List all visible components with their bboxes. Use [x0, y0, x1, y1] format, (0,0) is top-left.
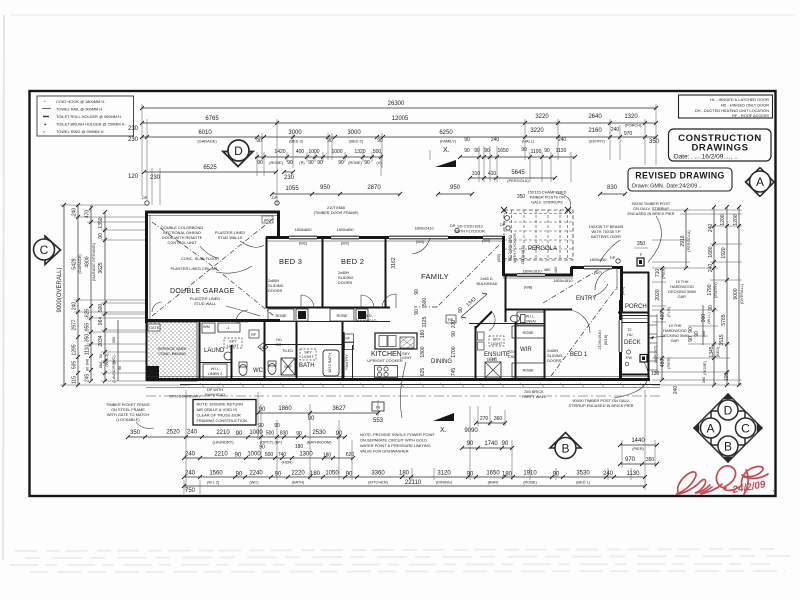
- svg-text:1350: 1350: [98, 217, 104, 228]
- svg-text:(BED 2): (BED 2): [349, 139, 364, 144]
- svg-text:LINEN: LINEN: [524, 319, 536, 324]
- svg-text:1800x850: 1800x850: [589, 257, 607, 262]
- svg-text:DP: DP: [500, 222, 506, 227]
- robes row under bedrooms: [266, 321, 390, 323]
- svg-text:180: 180: [399, 471, 410, 477]
- garage bottom wall: [146, 319, 280, 322]
- window marks top wall: [289, 237, 502, 239]
- svg-text:90: 90: [464, 137, 470, 143]
- svg-text:ROBE: ROBE: [522, 330, 533, 335]
- tick marks top: [140, 106, 658, 196]
- svg-text:1800: 1800: [420, 346, 426, 357]
- svg-text:115: 115: [72, 376, 78, 384]
- svg-text:C: C: [741, 422, 750, 436]
- elevation marker cluster ABCD: [694, 394, 762, 462]
- svg-text:400: 400: [296, 149, 305, 155]
- svg-text:DINING: DINING: [431, 359, 452, 365]
- svg-text:90: 90: [464, 148, 470, 154]
- svg-text:2020: 2020: [655, 289, 661, 300]
- legend box top-left: [37, 96, 134, 136]
- svg-text:6765: 6765: [205, 116, 219, 122]
- svg-text:1910: 1910: [523, 471, 537, 477]
- svg-text:GAP.: GAP.: [671, 338, 680, 343]
- boxed note ensure return air grille: [193, 400, 256, 426]
- kitchen: [375, 333, 417, 349]
- svg-text:(LOCKABLE): (LOCKABLE): [116, 417, 140, 422]
- svg-text:(GARAGE): (GARAGE): [77, 254, 82, 274]
- svg-text:(W.L 2): (W.L 2): [207, 480, 220, 485]
- svg-text:(W2): (W2): [341, 241, 350, 246]
- svg-text:COAT HOOK @ 1800MM H.: COAT HOOK @ 1800MM H.: [56, 99, 105, 104]
- svg-text:DRAWINGS: DRAWINGS: [691, 143, 748, 154]
- svg-text:PERGOLA: PERGOLA: [528, 246, 557, 252]
- svg-text:90: 90: [236, 472, 243, 478]
- svg-text:800: 800: [264, 218, 271, 223]
- section marker B bottom: [550, 433, 581, 459]
- svg-text:(PERGOLA): (PERGOLA): [686, 230, 691, 252]
- svg-text:RF: RF: [346, 337, 350, 341]
- svg-text:240: 240: [708, 224, 714, 233]
- bed1 robe: [512, 363, 544, 377]
- svg-text:DOORS: DOORS: [268, 288, 283, 293]
- svg-text:LIGHT: LIGHT: [400, 355, 412, 360]
- svg-text:3625: 3625: [98, 262, 104, 273]
- svg-text:(BATH): (BATH): [292, 480, 305, 485]
- svg-text:2520: 2520: [166, 430, 180, 436]
- svg-text:ROBE: ROBE: [336, 313, 347, 318]
- svg-text:ENTRY: ENTRY: [576, 296, 596, 302]
- svg-text:TILED: TILED: [282, 348, 293, 353]
- svg-text:1680: 1680: [708, 246, 714, 257]
- revised drawing box: [628, 168, 732, 191]
- svg-text:(WC): (WC): [249, 480, 259, 485]
- svg-text:ON SEPARATE CIRCUIT WITH GOLD: ON SEPARATE CIRCUIT WITH GOLD: [360, 438, 427, 443]
- dining ensuite wall: [475, 326, 477, 380]
- svg-text:2220: 2220: [291, 471, 305, 477]
- leader lines annotations: [200, 246, 218, 258]
- svg-text:240: 240: [72, 302, 78, 311]
- svg-text:(BATHROOM): (BATHROOM): [307, 440, 332, 445]
- svg-text:955: 955: [85, 323, 91, 332]
- svg-text:2870: 2870: [367, 185, 381, 191]
- svg-text:(PERGOLA): (PERGOLA): [507, 178, 529, 183]
- svg-text:1130: 1130: [627, 471, 641, 477]
- svg-text:90: 90: [275, 472, 282, 478]
- svg-text:STUD WALLS: STUD WALLS: [218, 235, 243, 240]
- svg-text:90: 90: [502, 441, 509, 447]
- bed1 ceiling diagonal: [551, 287, 617, 376]
- svg-text:(GARAGE OPENING): (GARAGE OPENING): [91, 242, 96, 281]
- svg-text:1055: 1055: [285, 186, 299, 192]
- svg-text:2977: 2977: [72, 319, 78, 330]
- wm and trough: [202, 323, 215, 333]
- svg-text:NOTE- PROVIDE SINGLE POWER POI: NOTE- PROVIDE SINGLE POWER POINT: [360, 432, 435, 437]
- svg-text:-1: -1: [226, 325, 229, 330]
- svg-text:350: 350: [517, 194, 526, 200]
- svg-text:1800x1810: 1800x1810: [553, 278, 573, 283]
- svg-text:LIGHT: LIGHT: [227, 343, 239, 348]
- svg-text:(TIMBER DOOR FRAME): (TIMBER DOOR FRAME): [314, 210, 359, 215]
- svg-text:TOWEL RAIL @ 900MM H.: TOWEL RAIL @ 900MM H.: [56, 107, 103, 112]
- svg-text:1200: 1200: [720, 214, 726, 225]
- svg-text:DP: DP: [142, 195, 148, 200]
- svg-text:LAUND: LAUND: [204, 348, 225, 354]
- svg-text:RF: RF: [251, 332, 257, 337]
- svg-text:350: 350: [130, 430, 141, 436]
- svg-text:240: 240: [558, 137, 567, 143]
- svg-text:NOTE: ENSURE RETURN: NOTE: ENSURE RETURN: [197, 402, 244, 407]
- svg-text:360: 360: [494, 416, 503, 422]
- placeholder groups: [128, 101, 675, 239]
- svg-text:PORCH: PORCH: [625, 304, 647, 310]
- svg-text:1295: 1295: [72, 344, 78, 355]
- svg-text:B: B: [561, 442, 569, 456]
- svg-text:350: 350: [85, 334, 91, 343]
- garage door swing arcs: [152, 302, 162, 312]
- svg-text:LIGHT: LIGHT: [491, 341, 503, 346]
- svg-text:1860: 1860: [278, 406, 292, 412]
- svg-text:4800: 4800: [85, 256, 91, 267]
- svg-text:90: 90: [553, 472, 560, 478]
- svg-text:RAINHEAD: RAINHEAD: [205, 392, 225, 397]
- svg-text:180: 180: [420, 330, 426, 339]
- service yard left fence: [146, 322, 148, 381]
- exterior wall garage top: [145, 211, 280, 214]
- svg-text:WATER POINT & PRESSURE LIMITIN: WATER POINT & PRESSURE LIMITING: [360, 443, 431, 448]
- svg-text:90: 90: [235, 453, 242, 459]
- svg-text:X.: X.: [440, 427, 447, 434]
- svg-text:950: 950: [320, 185, 331, 191]
- service yard hatched paving: [147, 322, 197, 381]
- svg-text:1800x850: 1800x850: [294, 227, 312, 232]
- wil linen 2: [203, 364, 227, 378]
- abbreviation legend top-right: [679, 95, 773, 118]
- svg-text:90: 90: [308, 416, 315, 422]
- svg-text:3000: 3000: [288, 130, 302, 136]
- svg-text:D: D: [724, 404, 733, 418]
- svg-text:BATTENS OVER: BATTENS OVER: [591, 234, 621, 239]
- svg-text:26300: 26300: [388, 101, 405, 107]
- svg-text:(BED 1): (BED 1): [576, 480, 591, 485]
- svg-text:90: 90: [544, 148, 550, 154]
- svg-text:1200: 1200: [733, 214, 739, 225]
- svg-text:2034: 2034: [98, 335, 104, 346]
- svg-text:3530: 3530: [576, 471, 590, 477]
- svg-text:(OVERALL): (OVERALL): [739, 283, 744, 304]
- svg-text:868: 868: [98, 362, 103, 369]
- svg-text:FRAMING CONSTRUCTION.: FRAMING CONSTRUCTION.: [197, 418, 248, 423]
- svg-text:90: 90: [257, 160, 263, 166]
- svg-text:A: A: [756, 175, 764, 189]
- svg-text:DECK: DECK: [624, 340, 641, 346]
- svg-text:120: 120: [128, 174, 139, 180]
- svg-text:STIRRUP ENCASED IN BRICK PIER: STIRRUP ENCASED IN BRICK PIER: [568, 403, 633, 408]
- entry porch deck outer walls: [620, 266, 623, 313]
- svg-text:(ROBE): (ROBE): [269, 160, 283, 165]
- svg-text:LIGHT: LIGHT: [302, 354, 314, 359]
- svg-text:DOORS: DOORS: [547, 358, 562, 363]
- svg-text:970: 970: [624, 131, 633, 137]
- svg-text:500: 500: [266, 431, 275, 437]
- svg-text:90: 90: [458, 307, 464, 313]
- svg-text:ROBE: ROBE: [275, 313, 286, 318]
- svg-text:240: 240: [72, 208, 78, 217]
- svg-text:90: 90: [414, 289, 420, 295]
- svg-text:(BED): (BED): [715, 346, 720, 357]
- misc small boxed labels: [249, 330, 259, 338]
- svg-text:90: 90: [259, 407, 266, 413]
- svg-text:625: 625: [85, 309, 91, 318]
- leader curve to timber post note: [648, 216, 661, 262]
- party wall band: [180, 384, 660, 386]
- extension lines top: [142, 104, 656, 205]
- svg-text:1420: 1420: [274, 149, 285, 155]
- svg-text:240: 240: [187, 430, 198, 436]
- svg-text:(W4): (W4): [482, 238, 491, 243]
- svg-text:1100: 1100: [531, 149, 542, 155]
- svg-text:(R): (R): [299, 160, 305, 165]
- svg-text:(W1): (W1): [299, 241, 308, 246]
- svg-text:1650: 1650: [497, 148, 508, 154]
- svg-text:BULKHEAD: BULKHEAD: [356, 318, 377, 323]
- svg-text:1440: 1440: [631, 438, 645, 444]
- svg-text:350: 350: [111, 336, 116, 343]
- note dishwasher power point: [360, 432, 435, 454]
- bottom dim row 4: [184, 476, 645, 478]
- svg-text:230: 230: [128, 137, 139, 143]
- svg-text:1650: 1650: [486, 471, 500, 477]
- svg-text:SITE BOUNDARY: SITE BOUNDARY: [169, 394, 201, 399]
- bath fixtures: [323, 350, 339, 376]
- bottom dim row 1: [258, 412, 378, 414]
- signature red: [676, 466, 768, 494]
- svg-text:HL - HINGED & LATCHED DOOR: HL - HINGED & LATCHED DOOR: [710, 97, 769, 102]
- section marker D top: [223, 140, 253, 167]
- svg-text:2530: 2530: [312, 430, 326, 436]
- svg-text:TOILET ROLL HOLDER @ 900MM H.: TOILET ROLL HOLDER @ 900MM H.: [56, 114, 122, 119]
- svg-text:D: D: [234, 144, 243, 158]
- svg-text:3220: 3220: [535, 114, 549, 120]
- left tick marks: [62, 203, 107, 387]
- dimension row 26300: [142, 107, 656, 109]
- svg-text:180: 180: [310, 471, 321, 477]
- door arcs: [301, 295, 314, 308]
- svg-text:1300: 1300: [299, 452, 313, 458]
- wall step garage to bedrooms: [277, 211, 280, 238]
- svg-text:×: ×: [43, 129, 45, 134]
- decking note arrow: [649, 336, 665, 338]
- svg-text:240: 240: [491, 137, 500, 143]
- svg-text:625: 625: [420, 368, 426, 377]
- bottom dim row 3: [184, 457, 353, 459]
- svg-text:9090: 9090: [464, 428, 478, 434]
- svg-text:KITCHEN: KITCHEN: [371, 351, 402, 358]
- svg-text:CONTROL UNIT: CONTROL UNIT: [167, 240, 197, 245]
- svg-text:1130: 1130: [556, 148, 567, 154]
- svg-text:5765: 5765: [721, 314, 727, 325]
- svg-text:1320: 1320: [354, 149, 365, 155]
- svg-text:1110: 1110: [85, 345, 91, 356]
- skylight laundry: [224, 338, 242, 348]
- svg-text:GAP.: GAP.: [678, 294, 687, 299]
- svg-text:WITH FLYDOOR: WITH FLYDOOR: [455, 229, 485, 234]
- wc fixtures: [239, 365, 247, 376]
- ensuite wir bed1: [515, 322, 517, 380]
- svg-text:90: 90: [451, 331, 457, 337]
- svg-text:3627: 3627: [332, 406, 346, 412]
- svg-text:90: 90: [521, 147, 527, 153]
- wil linen entry: [517, 312, 544, 325]
- svg-text:(ROBE): (ROBE): [523, 480, 537, 485]
- svg-text:X.: X.: [443, 147, 450, 154]
- svg-text:GATE: GATE: [149, 325, 160, 330]
- svg-text:750: 750: [185, 488, 196, 494]
- svg-text:BULKHEAD: BULKHEAD: [477, 281, 498, 286]
- svg-text:1740: 1740: [484, 441, 498, 447]
- svg-text:(FAMILY): (FAMILY): [440, 139, 457, 144]
- svg-text:WM: WM: [203, 324, 210, 329]
- svg-text:12005: 12005: [392, 116, 409, 122]
- bottom exterior wall: [146, 378, 650, 381]
- svg-text:90: 90: [467, 472, 474, 478]
- svg-text:970: 970: [625, 457, 636, 463]
- section marker A right edge: [746, 168, 775, 197]
- svg-text:1000: 1000: [331, 149, 342, 155]
- left vertical dimension lines: [64, 205, 118, 385]
- svg-text:(V): (V): [376, 160, 382, 165]
- svg-text:300: 300: [701, 376, 706, 383]
- exterior left wall: [145, 211, 148, 323]
- svg-text:22110: 22110: [405, 480, 422, 486]
- svg-text:740: 740: [278, 452, 287, 458]
- svg-text:950: 950: [450, 185, 461, 191]
- svg-text:6250: 6250: [439, 130, 453, 136]
- svg-text:DP: DP: [272, 195, 278, 200]
- svg-text:240: 240: [673, 386, 679, 395]
- bottom vertical extension lines: [186, 390, 655, 490]
- exterior top wall entry wing: [503, 274, 573, 277]
- svg-text:270: 270: [480, 416, 489, 422]
- svg-text:GALV. STIRRUPS: GALV. STIRRUPS: [531, 200, 563, 205]
- svg-text:(ENTRY): (ENTRY): [713, 281, 718, 297]
- svg-text:(DINING): (DINING): [436, 480, 453, 485]
- svg-text:90: 90: [338, 160, 344, 166]
- svg-text:90: 90: [287, 160, 293, 166]
- svg-text:(W.I.L): (W.I.L): [706, 312, 711, 324]
- svg-text:6525: 6525: [203, 165, 217, 171]
- svg-text:PLASTER LINED CEILING: PLASTER LINED CEILING: [171, 266, 218, 271]
- svg-text:FW: FW: [626, 355, 632, 360]
- svg-text:1700: 1700: [451, 346, 457, 357]
- gate: [148, 324, 160, 331]
- laundry walls: [199, 321, 201, 380]
- svg-text:1800x2410: 1800x2410: [414, 226, 434, 231]
- svg-text:Drawn: GMN. Date:24/2/09 ..: Drawn: GMN. Date:24/2/09 ..: [632, 184, 701, 190]
- svg-text:B: B: [724, 440, 732, 454]
- svg-text:2210: 2210: [214, 452, 228, 458]
- right extension lines: [652, 210, 742, 385]
- svg-text:745: 745: [451, 368, 457, 377]
- svg-text:1672 BATH: 1672 BATH: [327, 353, 332, 373]
- svg-text:90: 90: [98, 233, 104, 239]
- dimension row 6525: [144, 171, 276, 173]
- svg-text:(HALL): (HALL): [522, 139, 535, 144]
- svg-text:BED 2: BED 2: [341, 257, 364, 266]
- svg-text:STUD WALL: STUD WALL: [194, 301, 217, 306]
- svg-text:PANTRY: PANTRY: [344, 354, 349, 370]
- DP circles: [145, 201, 149, 205]
- service yard black corner step: [147, 366, 159, 380]
- svg-text:(W3): (W3): [416, 239, 425, 244]
- svg-text:3220: 3220: [530, 128, 544, 134]
- svg-text:1920: 1920: [721, 247, 727, 258]
- section marker C left: [34, 236, 61, 265]
- svg-text:WC: WC: [253, 368, 264, 374]
- svg-text:Date: . ....16/2/09..... ..: Date: . ....16/2/09..... ..: [674, 154, 738, 161]
- bottom overall row 22110: [184, 485, 645, 487]
- svg-text:3360: 3360: [371, 471, 385, 477]
- svg-text:2160: 2160: [588, 128, 602, 134]
- svg-text:(GARAGE): (GARAGE): [197, 139, 217, 144]
- svg-text:(W7): (W7): [594, 270, 603, 275]
- dimension row room widths: [142, 136, 656, 138]
- bed1 window right: [620, 320, 622, 352]
- svg-text:RF: RF: [448, 317, 454, 322]
- svg-text:DP: DP: [450, 223, 456, 228]
- svg-text:500: 500: [422, 298, 428, 307]
- bottom dim row 2: [128, 436, 345, 438]
- svg-text:9000(OVERALL): 9000(OVERALL): [57, 267, 63, 312]
- border frame: [30, 91, 776, 496]
- svg-text:505: 505: [72, 361, 78, 370]
- svg-text:90: 90: [414, 309, 420, 315]
- svg-text:DOUBLE GARAGE: DOUBLE GARAGE: [170, 288, 235, 295]
- svg-text:230: 230: [284, 175, 295, 181]
- svg-text:AIR GRILLE & VOID IS: AIR GRILLE & VOID IS: [197, 407, 238, 412]
- svg-text:3120: 3120: [437, 471, 451, 477]
- svg-text:245: 245: [85, 374, 91, 383]
- svg-text:BED 3: BED 3: [279, 257, 302, 266]
- svg-text:(ROBE): (ROBE): [348, 160, 362, 165]
- svg-text:ROBE: ROBE: [522, 368, 533, 373]
- svg-text:PARTY WALL: PARTY WALL: [522, 394, 547, 399]
- svg-text:240: 240: [185, 452, 196, 458]
- svg-text:90: 90: [256, 138, 262, 144]
- svg-text:LINEN 2: LINEN 2: [208, 371, 223, 376]
- svg-text:1000: 1000: [247, 452, 261, 458]
- svg-text:180: 180: [502, 472, 513, 478]
- svg-text:CONC. PAVING: CONC. PAVING: [158, 351, 186, 356]
- svg-text:(PIER): (PIER): [632, 446, 644, 451]
- site boundary dashed: [146, 395, 660, 397]
- svg-text:830: 830: [280, 431, 289, 437]
- svg-text:DP: DP: [610, 255, 616, 260]
- svg-text:230: 230: [128, 126, 139, 132]
- svg-text:2110x1810: 2110x1810: [520, 245, 525, 265]
- svg-text:DOORS: DOORS: [338, 280, 353, 285]
- svg-text:CLEAR OF TRUSS &/OR: CLEAR OF TRUSS &/OR: [197, 413, 241, 418]
- svg-text:BED 1: BED 1: [570, 352, 588, 358]
- svg-text:350: 350: [637, 241, 646, 247]
- svg-text:RF - ROOF ACCESS: RF - ROOF ACCESS: [732, 113, 769, 118]
- svg-text:VALVE FOR DISHWASHER: VALVE FOR DISHWASHER: [360, 449, 409, 454]
- svg-text:2640: 2640: [588, 114, 602, 120]
- svg-text:553: 553: [373, 418, 384, 424]
- svg-text:2105x1530: 2105x1530: [597, 330, 602, 350]
- 800 label box: [262, 216, 273, 223]
- post squares right: [637, 258, 644, 266]
- svg-text:5645: 5645: [511, 170, 525, 176]
